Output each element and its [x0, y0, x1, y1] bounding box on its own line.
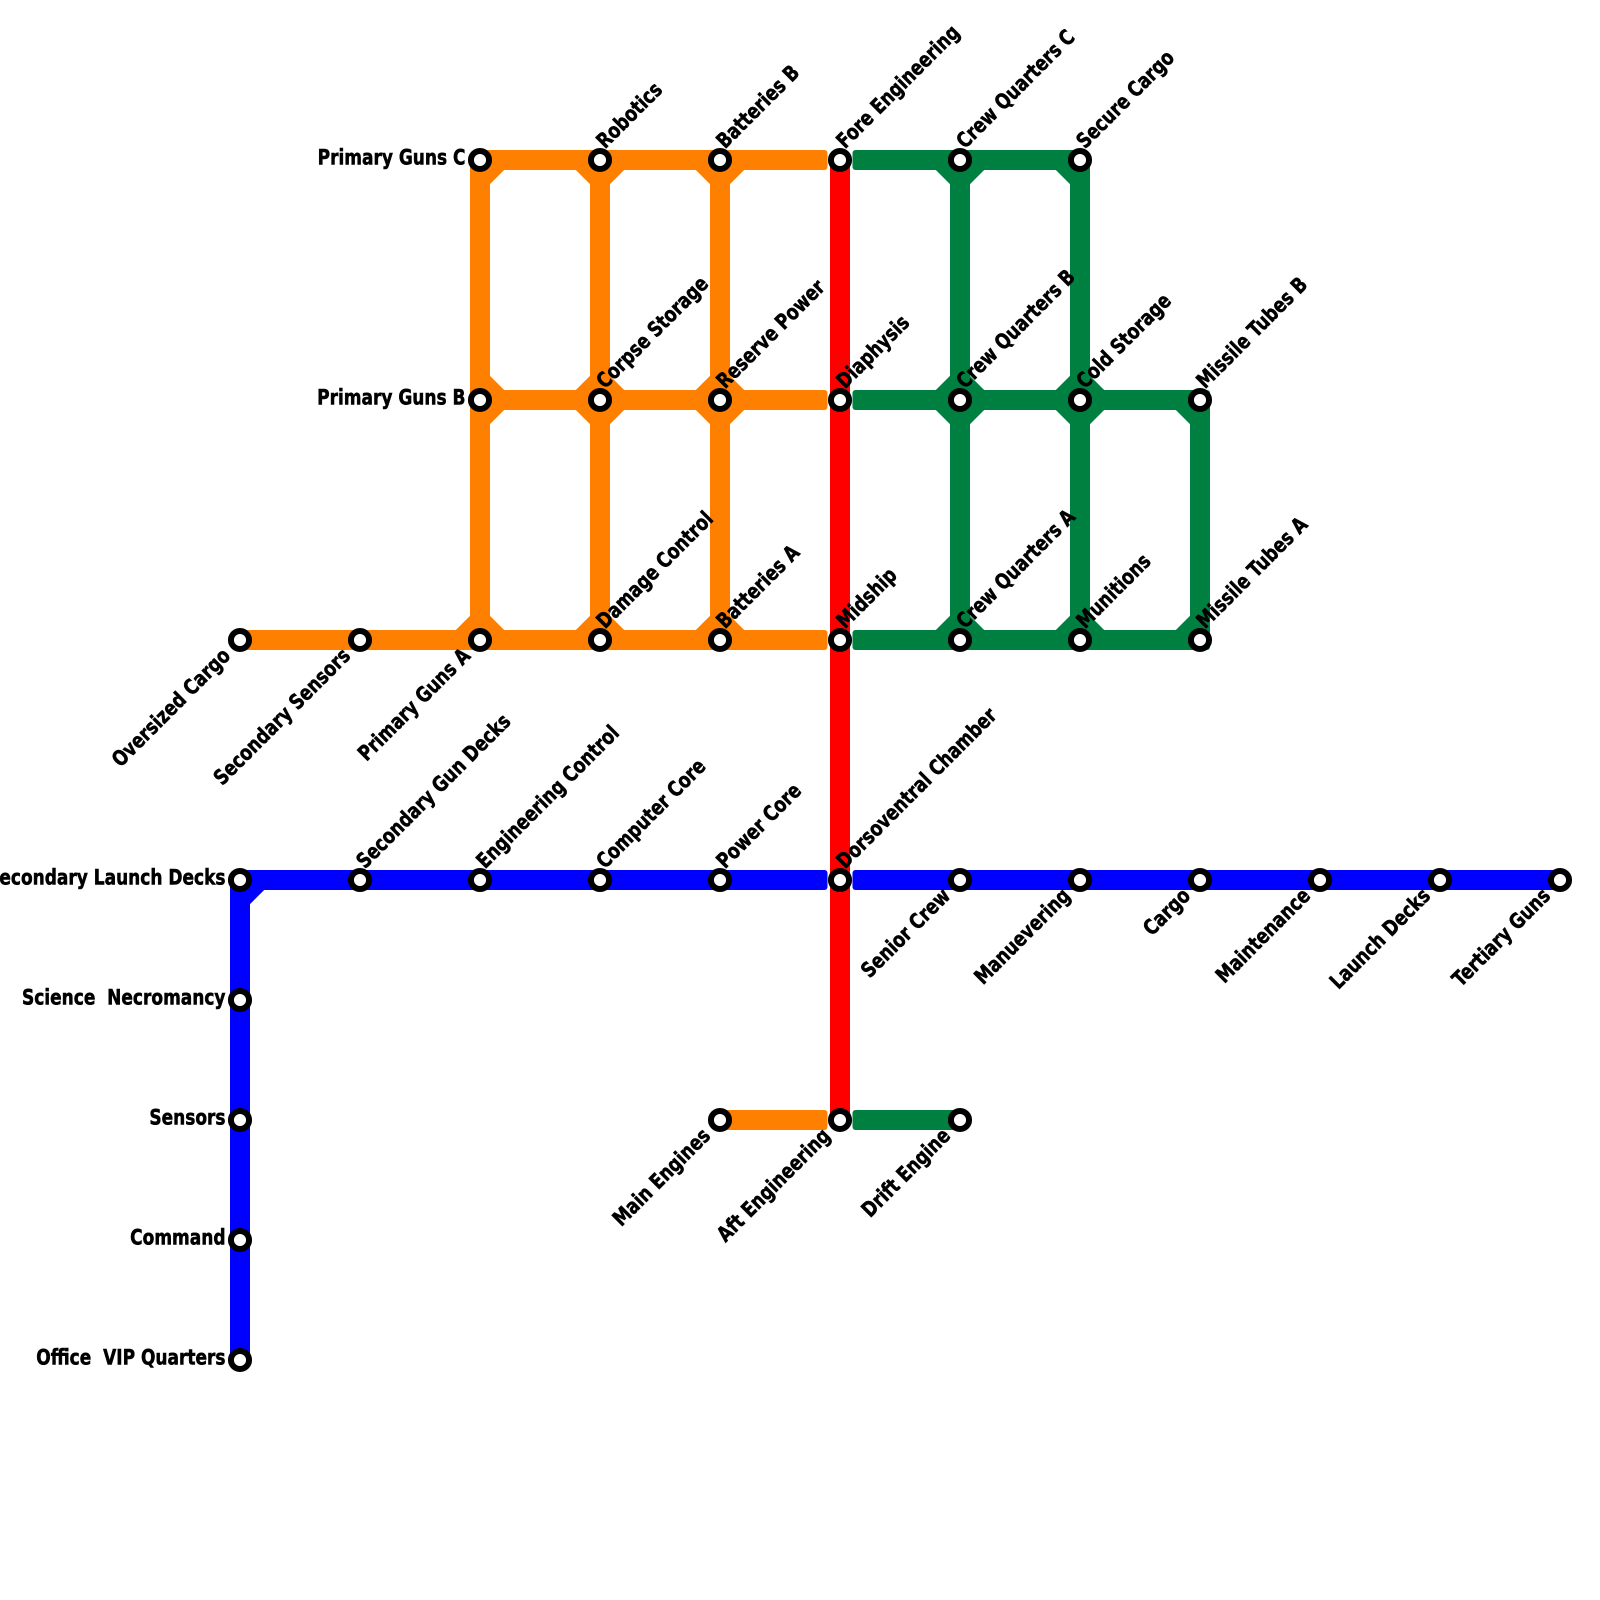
svg-text:Office VIP Quarters: Office VIP Quarters [36, 1345, 225, 1370]
svg-text:Science Necromancy: Science Necromancy [22, 985, 226, 1010]
svg-text:Primary Guns B: Primary Guns B [317, 385, 465, 410]
svg-text:Secondary Launch Decks: Secondary Launch Decks [0, 865, 225, 890]
svg-text:Command: Command [130, 1225, 225, 1250]
svg-text:Primary Guns C: Primary Guns C [318, 145, 466, 170]
svg-text:Sensors: Sensors [149, 1105, 225, 1130]
